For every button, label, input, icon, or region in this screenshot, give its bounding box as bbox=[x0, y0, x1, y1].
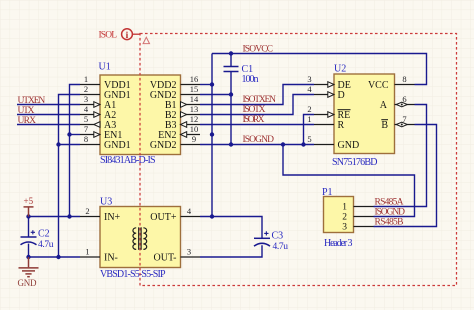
U2 left pin stubs bbox=[314, 85, 334, 145]
svg-text:VCC: VCC bbox=[368, 80, 389, 91]
directive circle i bbox=[122, 29, 133, 41]
svg-text:D: D bbox=[338, 90, 345, 101]
svg-text:4.7u: 4.7u bbox=[273, 242, 289, 252]
directive ISOL label bbox=[99, 30, 118, 40]
svg-text:6: 6 bbox=[402, 94, 406, 104]
C2 labels bbox=[38, 228, 54, 250]
wire GND2 pin15 to C1 column bbox=[200, 94, 231, 96]
svg-text:A: A bbox=[380, 100, 388, 111]
svg-text:C3: C3 bbox=[272, 230, 284, 241]
ground GND symbol bbox=[19, 257, 39, 277]
svg-text:15: 15 bbox=[190, 84, 199, 94]
svg-text:3: 3 bbox=[342, 223, 347, 233]
GND label bbox=[18, 278, 38, 288]
U1 left pin stubs bbox=[80, 85, 100, 145]
U2 B overline bbox=[381, 119, 388, 121]
C3 plus sign bbox=[264, 231, 268, 235]
U3 transformer symbol bbox=[133, 227, 147, 250]
svg-text:OUT-: OUT- bbox=[154, 252, 177, 263]
wire UTXEN horizontal bbox=[17, 104, 80, 106]
wire +5 rail to U3 IN+ bbox=[29, 216, 81, 218]
svg-text:ISOVCC: ISOVCC bbox=[243, 44, 274, 54]
directive triangle marker bbox=[143, 37, 149, 43]
wire VDD1 riser (pin1/EN1 to +5 rail) bbox=[70, 85, 81, 217]
U3 pin numbers bbox=[85, 206, 192, 257]
U2 part name bbox=[332, 157, 378, 168]
svg-text:RS485A: RS485A bbox=[375, 197, 404, 207]
svg-text:R: R bbox=[338, 120, 345, 131]
svg-text:8: 8 bbox=[402, 74, 406, 84]
svg-text:ISOTX: ISOTX bbox=[243, 105, 266, 115]
C3 labels bbox=[272, 230, 289, 252]
wire ISORX B3 to R bbox=[200, 124, 314, 126]
U3 pin stubs bbox=[80, 217, 200, 258]
wire U2 A to RS485A P1 pin1 bbox=[374, 105, 427, 207]
C2 plus sign bbox=[31, 230, 35, 234]
capacitor C1 plates bbox=[224, 67, 239, 72]
wire GND rail to U3 IN- bbox=[29, 256, 81, 258]
svg-text:ISOGND: ISOGND bbox=[243, 135, 275, 145]
wire C2 to GND rail bbox=[28, 244, 30, 257]
svg-text:16: 16 bbox=[190, 74, 199, 84]
U1 part name bbox=[100, 155, 156, 166]
svg-text:2: 2 bbox=[307, 104, 311, 114]
U2 pin arrows bbox=[328, 82, 408, 127]
svg-text:U1: U1 bbox=[99, 61, 111, 72]
wire UTX horizontal bbox=[17, 114, 80, 116]
svg-text:3: 3 bbox=[187, 247, 191, 257]
svg-text:3: 3 bbox=[84, 94, 88, 104]
svg-text:UTX: UTX bbox=[18, 106, 35, 116]
svg-text:Header 3: Header 3 bbox=[324, 238, 353, 249]
svg-text:7: 7 bbox=[402, 114, 406, 124]
U2 designator bbox=[334, 64, 346, 75]
P1 pin stubs bbox=[354, 207, 374, 227]
net label ISOVCC bbox=[243, 44, 274, 54]
net label ISOTXEN bbox=[243, 95, 277, 105]
wire VDD2 pin16 to ISOVCC riser bbox=[200, 84, 212, 86]
svg-text:13: 13 bbox=[190, 104, 199, 114]
+5 label bbox=[24, 196, 34, 206]
wire C1 bottom stem to ISOGND bbox=[230, 72, 232, 145]
net label UTX bbox=[18, 106, 35, 116]
P1 part name bbox=[324, 238, 353, 249]
svg-text:IN+: IN+ bbox=[104, 212, 121, 223]
svg-text:12: 12 bbox=[190, 114, 199, 124]
svg-text:GND1: GND1 bbox=[104, 140, 131, 151]
svg-text:4.7u: 4.7u bbox=[38, 240, 54, 250]
svg-text:14: 14 bbox=[190, 94, 199, 104]
wire RE riser to ISOGND bbox=[304, 115, 315, 145]
svg-text:SI8431AB-D-IS: SI8431AB-D-IS bbox=[100, 155, 156, 166]
U2 A/B symbol center marks bbox=[401, 104, 403, 126]
U3 pin names bbox=[104, 212, 121, 263]
U2 pin numbers bbox=[307, 74, 406, 144]
svg-text:P1: P1 bbox=[322, 187, 333, 198]
wire U3 OUT+ to C3 top bbox=[200, 217, 262, 239]
svg-text:U2: U2 bbox=[334, 64, 346, 75]
C1 labels bbox=[242, 64, 259, 85]
P1 pin numbers bbox=[342, 203, 347, 233]
svg-text:+5: +5 bbox=[24, 196, 34, 206]
net label RS485A bbox=[375, 197, 404, 207]
svg-text:OUT+: OUT+ bbox=[150, 212, 177, 223]
net label URX bbox=[18, 116, 37, 126]
svg-text:U3: U3 bbox=[100, 196, 112, 207]
svg-text:100n: 100n bbox=[242, 74, 259, 85]
svg-text:2: 2 bbox=[342, 213, 347, 223]
op U1 body SI8431AB-D-IS bbox=[100, 75, 181, 155]
svg-text:VBSD1-S5-S5-SIP: VBSD1-S5-S5-SIP bbox=[100, 269, 166, 280]
svg-text:IN-: IN- bbox=[104, 252, 118, 263]
wire U2 B to RS485B P1 pin3 bbox=[374, 125, 437, 227]
svg-text:SN75176BD: SN75176BD bbox=[332, 157, 378, 168]
svg-text:3: 3 bbox=[307, 74, 311, 84]
U1 designator bbox=[99, 61, 111, 72]
net label ISORX bbox=[243, 115, 265, 125]
U3 designator bbox=[100, 196, 112, 207]
capacitor C2 polarized bbox=[21, 237, 37, 245]
wire GND1 pin8 link bbox=[59, 144, 81, 146]
U2 RE overline bbox=[338, 109, 351, 111]
wire GND1 riser (pin2/pin8 to GND rail) bbox=[59, 95, 81, 258]
net label UTXEN bbox=[18, 96, 46, 106]
wire ISOGND feed to P1 pin2 bbox=[283, 145, 415, 217]
svg-text:8: 8 bbox=[84, 134, 88, 144]
svg-text:URX: URX bbox=[18, 116, 37, 126]
wire C3 bottom to U3 OUT- bbox=[200, 245, 262, 257]
svg-text:GND2: GND2 bbox=[150, 140, 177, 151]
svg-text:1: 1 bbox=[307, 114, 311, 124]
wire ISOVCC riser to U3 OUT+ bbox=[211, 54, 213, 217]
svg-text:5: 5 bbox=[84, 114, 88, 124]
op U3 body VBSD1-S5-S5-SIP bbox=[100, 207, 181, 268]
svg-text:1: 1 bbox=[342, 203, 347, 213]
svg-text:10: 10 bbox=[190, 124, 199, 134]
directive link wire bbox=[132, 33, 140, 35]
svg-text:ISOL: ISOL bbox=[99, 30, 118, 40]
U1 right pin stubs bbox=[181, 85, 201, 145]
wire ISOTXEN B1 to DE bbox=[200, 85, 314, 105]
svg-text:9: 9 bbox=[192, 134, 196, 144]
svg-text:i: i bbox=[126, 31, 129, 41]
svg-text:GND: GND bbox=[18, 278, 38, 288]
svg-text:ISOTXEN: ISOTXEN bbox=[243, 95, 277, 105]
wire ISOTX B2 to D bbox=[200, 95, 314, 115]
svg-text:ISORX: ISORX bbox=[243, 115, 265, 125]
U2 pin names bbox=[338, 80, 360, 151]
compile mask dashed boundary bbox=[140, 34, 457, 286]
U1 pin names bbox=[104, 80, 131, 151]
wire ISOVCC rail to U2 VCC bbox=[212, 54, 427, 85]
svg-text:RS485B: RS485B bbox=[375, 217, 404, 227]
svg-text:ISOGND: ISOGND bbox=[375, 207, 406, 217]
svg-text:2: 2 bbox=[85, 206, 89, 216]
wire +5 stem to C2 bbox=[28, 217, 30, 238]
U2 right pin stubs bbox=[395, 85, 415, 125]
power +5 symbol bbox=[24, 207, 34, 217]
svg-text:5: 5 bbox=[307, 134, 311, 144]
wire ISOGND rail bbox=[200, 144, 314, 146]
wire C1 top stem bbox=[230, 54, 232, 67]
connector P1 Header 3 bbox=[324, 197, 354, 233]
P1 designator bbox=[322, 187, 333, 198]
wire URX horizontal bbox=[17, 124, 80, 126]
net label ISOGND P1 bbox=[375, 207, 406, 217]
svg-text:1: 1 bbox=[84, 74, 88, 84]
U1 pin arrows bbox=[94, 102, 187, 138]
U1 pin numbers bbox=[84, 74, 199, 144]
wire EN1 stub link bbox=[70, 134, 81, 136]
svg-text:7: 7 bbox=[84, 124, 88, 134]
svg-text:C2: C2 bbox=[38, 228, 50, 239]
svg-text:GND: GND bbox=[338, 140, 360, 151]
net label ISOTX bbox=[243, 105, 266, 115]
capacitor C3 polarized bbox=[254, 238, 270, 246]
svg-text:B: B bbox=[381, 120, 388, 131]
svg-text:2: 2 bbox=[84, 84, 88, 94]
U3 part name bbox=[100, 269, 166, 280]
svg-text:UTXEN: UTXEN bbox=[18, 96, 46, 106]
net label RS485B bbox=[375, 217, 404, 227]
svg-text:1: 1 bbox=[85, 247, 89, 257]
op U2 body SN75176BD bbox=[334, 74, 395, 154]
net label ISOGND bbox=[243, 135, 275, 145]
